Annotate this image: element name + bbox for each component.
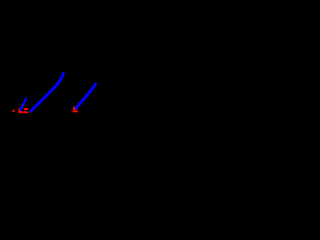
wire B1: long black diagonal (light-ray asymptote, invisible on black) (6, 20, 73, 116)
label L: red italic letter L (19, 108, 20, 112)
wire B4: second black diagonal (right asymptote) (73, 64, 106, 107)
wire B3: short black diagonal tick at right end (155, 20, 164, 30)
worldline C: right blue hyperbolic curve (76, 84, 95, 108)
node O: red dot at base of right worldline (73, 106, 77, 110)
wire B2: black horizontal line at top (73, 19, 155, 21)
node dot: small red dot left of label L (12, 110, 15, 113)
worldline B: left blue hyperbolic curve (31, 74, 63, 112)
label underbar: red bar under node O (72, 111, 78, 113)
worldline A: short steep blue segment (21, 98, 27, 109)
label equals bottom bar (24, 111, 29, 113)
label equals top bar (24, 108, 28, 110)
